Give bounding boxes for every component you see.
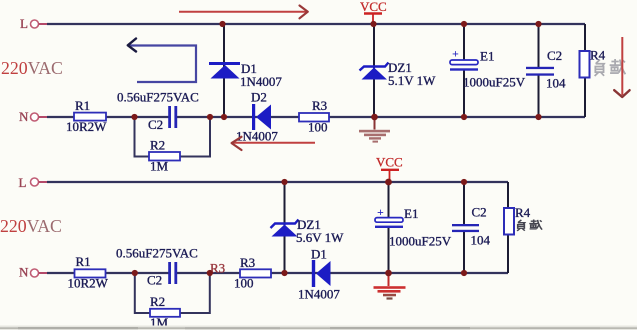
svg-text:C2: C2 <box>472 205 487 220</box>
svg-text:L: L <box>20 16 28 31</box>
resistor R3 (top circuit) <box>299 98 329 135</box>
svg-text:+: + <box>452 47 459 61</box>
svg-text:1000uF25V: 1000uF25V <box>389 234 452 249</box>
node: N rail / R2 left <box>132 270 138 276</box>
diode D1 1N4007 (top circuit, vertical) <box>209 61 282 89</box>
svg-text:1N4007: 1N4007 <box>236 129 278 144</box>
wire: top L rail <box>47 23 585 25</box>
resistor R1 (top circuit) <box>66 98 107 134</box>
svg-text:R1: R1 <box>76 254 91 269</box>
window border strip (bottom edge) <box>0 326 637 330</box>
wire: bottom N rail (gap at series C2 plates) <box>47 116 585 118</box>
resistor R2 loop wires (top circuit) <box>135 117 211 157</box>
capacitor C2 series (bottom circuit) 0.56uF275VAC <box>116 246 198 288</box>
svg-text:E1: E1 <box>480 49 494 64</box>
current flow arrow (red, leftward, under D2) <box>232 137 315 150</box>
label 负载 load (top circuit, pale red, hand-drawn glyphs) <box>595 59 626 76</box>
svg-text:C2: C2 <box>147 273 162 288</box>
node: N rail / DZ1-D1 <box>281 270 287 276</box>
svg-text:R4: R4 <box>590 48 606 63</box>
wire: DZ1 branch vertical (bottom circuit) <box>284 182 286 273</box>
wire: output C2 branch vertical (bottom circuit) <box>463 182 465 273</box>
resistor R2 loop wires (bottom circuit) <box>135 273 210 313</box>
ground (bottom circuit, red) <box>374 273 406 300</box>
junction dots (top circuit) <box>131 21 541 120</box>
svg-text:C2: C2 <box>148 117 163 132</box>
label 负载 load (bottom circuit, dark red, hand-drawn glyphs) <box>517 220 542 231</box>
svg-text:104: 104 <box>471 233 491 248</box>
resistor R4 load (top circuit) <box>580 48 606 78</box>
junction dots (bottom circuit) <box>132 179 467 277</box>
svg-text:1N4007: 1N4007 <box>240 74 282 89</box>
current flow arrow (red, rightward, top) <box>179 6 308 19</box>
wire: output C2 branch vertical (top circuit) <box>538 24 540 117</box>
terminal N (bottom circuit) <box>19 265 48 280</box>
zener diode DZ1 5.6V 1W (bottom circuit) <box>271 217 345 245</box>
svg-text:D2: D2 <box>251 90 267 105</box>
node: N rail / C2 <box>535 114 541 120</box>
svg-text:10R2W: 10R2W <box>68 276 109 291</box>
svg-text:100: 100 <box>308 120 328 135</box>
node: N rail / R2 right-R3 <box>207 270 213 276</box>
node: L rail / D1 <box>219 21 225 27</box>
power VCC (top circuit) <box>360 0 387 24</box>
svg-text:C2: C2 <box>547 48 562 63</box>
svg-text:1M: 1M <box>150 159 169 174</box>
wire: L rail (bottom circuit) <box>47 181 508 183</box>
svg-text:R3: R3 <box>240 255 255 270</box>
terminal N (top circuit) <box>19 109 48 124</box>
svg-text:N: N <box>19 109 29 124</box>
node: N rail / R2 right <box>207 114 213 120</box>
node: L rail / C2 <box>535 21 541 27</box>
electrolytic capacitor E1 1000uF25V (top circuit) <box>450 47 526 90</box>
ground (top circuit, muted red) <box>359 117 390 143</box>
wire: R4 branch vertical (top circuit right edge) <box>584 24 586 117</box>
electrolytic capacitor E1 1000uF25V (bottom circuit) <box>375 205 452 249</box>
node: N rail / E1 <box>461 114 467 120</box>
wire: R4 branch vertical (bottom circuit right edge) <box>507 182 509 273</box>
svg-text:10R2W: 10R2W <box>66 119 107 134</box>
node: N rail / E1-ground <box>385 270 392 277</box>
terminal L (top circuit) <box>20 16 48 31</box>
svg-text:D1: D1 <box>311 247 327 262</box>
node: N rail / D1 <box>221 114 227 120</box>
svg-text:5.6V 1W: 5.6V 1W <box>296 230 344 245</box>
svg-text:104: 104 <box>546 76 566 91</box>
node: L rail / C2 <box>461 179 467 185</box>
node: N rail / DZ1-ground <box>371 114 378 121</box>
svg-text:R2: R2 <box>150 294 165 309</box>
resistor R4 load (bottom circuit) <box>504 205 531 235</box>
capacitor C2 series (top circuit) 0.56uF275VAC <box>117 90 199 133</box>
node: L rail / VCC-E1 <box>385 179 392 186</box>
node: N rail / C2 <box>461 270 467 276</box>
resistor R2 (top circuit) <box>149 138 180 174</box>
svg-text:VCC: VCC <box>376 155 403 170</box>
svg-text:220VAC: 220VAC <box>1 58 63 78</box>
diode D1 1N4007 (bottom circuit, horizontal) <box>298 247 340 302</box>
svg-text:0.56uF275VAC: 0.56uF275VAC <box>117 90 199 105</box>
resistor R1 (bottom circuit) <box>68 254 109 290</box>
node: L rail / VCC-DZ1 <box>370 21 376 27</box>
node: L rail / E1 <box>461 21 467 27</box>
wire: DZ1 branch vertical <box>373 24 375 117</box>
current flow arrow (red, downward, right of R4) <box>614 37 629 97</box>
svg-text:R2: R2 <box>150 138 165 153</box>
terminal L (bottom circuit) <box>19 175 49 190</box>
svg-text:R4: R4 <box>515 205 531 220</box>
svg-text:E1: E1 <box>404 206 418 221</box>
svg-text:L: L <box>19 175 27 190</box>
capacitor C2 104 (top circuit output) <box>526 48 566 91</box>
svg-text:N: N <box>19 265 29 280</box>
resistor R2 (bottom circuit) <box>150 294 180 330</box>
svg-text:0.56uF275VAC: 0.56uF275VAC <box>116 246 198 261</box>
svg-text:R1: R1 <box>75 98 90 113</box>
zener diode DZ1 5.1V 1W (top circuit) <box>360 60 437 88</box>
svg-text:5.1V 1W: 5.1V 1W <box>388 73 436 88</box>
resistor R3 (bottom circuit) <box>234 255 271 290</box>
node: L rail / DZ1 <box>281 179 287 185</box>
power VCC (bottom circuit) <box>376 155 403 183</box>
wire: E1 branch vertical (top circuit) <box>463 24 465 117</box>
diode D2 1N4007 (top circuit, horizontal) <box>236 90 278 144</box>
svg-text:R3: R3 <box>312 98 327 113</box>
wire: N rail (bottom circuit, gap at series C2) <box>47 272 508 274</box>
wire: D1 branch vertical <box>223 24 225 117</box>
current loop arrow (blue, U-shaped) <box>128 39 196 83</box>
wire: E1 branch vertical (bottom circuit) <box>388 182 390 273</box>
capacitor C2 104 (bottom circuit output) <box>452 205 491 248</box>
node: N rail / R2 left <box>131 114 137 120</box>
svg-text:VCC: VCC <box>360 0 387 14</box>
svg-text:220VAC: 220VAC <box>0 216 62 236</box>
svg-text:100: 100 <box>234 276 254 291</box>
svg-text:1N4007: 1N4007 <box>298 287 340 302</box>
svg-text:1000uF25V: 1000uF25V <box>463 75 526 90</box>
